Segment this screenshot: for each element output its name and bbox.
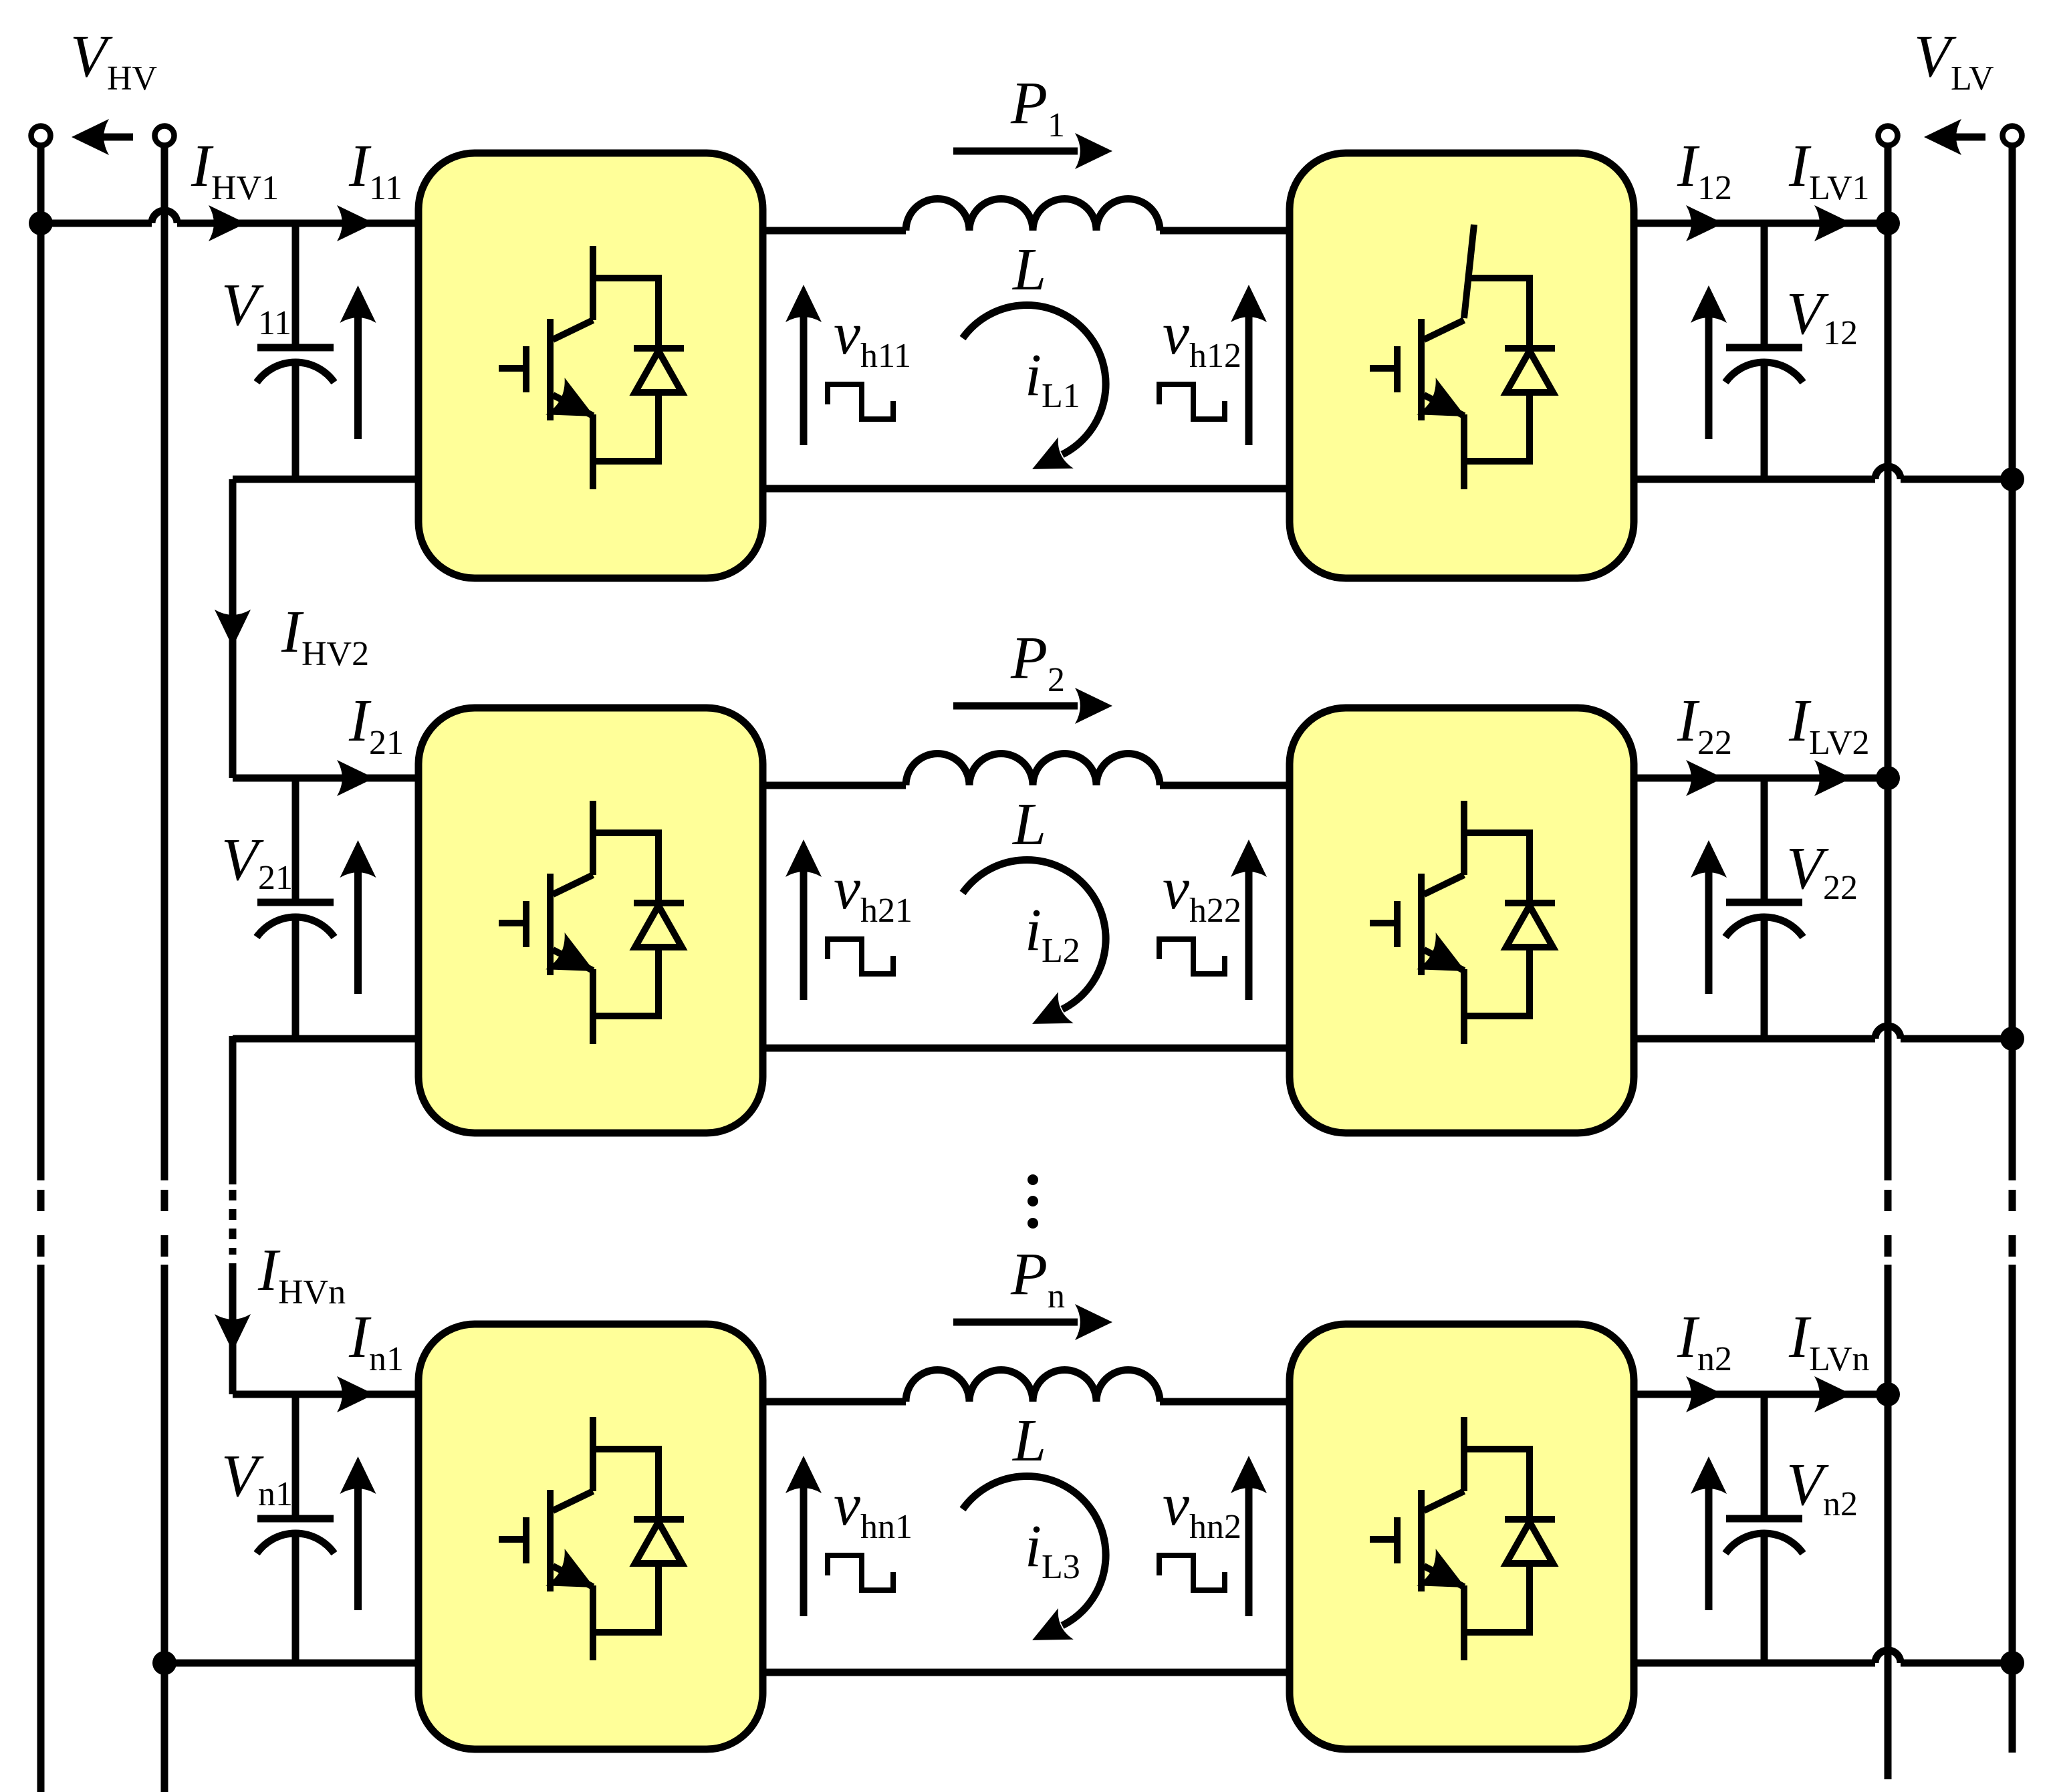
label I_11 [348, 133, 402, 207]
svg-text:L: L [1011, 237, 1046, 303]
label i_L2 [1025, 897, 1080, 970]
arrow I_11 [337, 205, 374, 241]
continuation dots [1028, 1174, 1038, 1229]
label I_HVn [257, 1237, 346, 1311]
label I_LVn [1788, 1304, 1870, 1378]
H-bridge cell 3 LV-side converter box [1290, 1324, 1634, 1749]
label I_HV2 [281, 599, 369, 673]
arrow V_n2 [1691, 1456, 1727, 1610]
terminal LV- [2003, 126, 2022, 146]
terminal LV+ [1879, 126, 1898, 146]
label I_12 [1677, 133, 1732, 207]
wire cell2 HV input [233, 775, 418, 782]
LV bus bar 2 (wire) [2009, 145, 2016, 1753]
inductor L cell 2 [906, 754, 1160, 786]
wire cell3 AC link right [1160, 1398, 1290, 1406]
H-bridge cell 2 HV-side converter box [418, 708, 763, 1133]
capacitor Cn2 (V_n2) [1725, 1394, 1803, 1663]
capacitor C11 (V_11) [257, 223, 334, 479]
arrow V_n1 [340, 1456, 376, 1610]
label L cell 2 [1011, 791, 1046, 858]
arrow I_LV2 [1814, 760, 1852, 796]
label I_HV1 [191, 133, 279, 207]
junction LV bus 2 node cell 3 [2000, 1651, 2024, 1675]
label P_2 [1010, 625, 1065, 699]
H-bridge cell 2 LV-side converter box [1290, 708, 1634, 1133]
junction LV bus node cell 2 [1876, 766, 1900, 790]
arrow P_1 power flow [953, 133, 1112, 169]
arrow P_n power flow [953, 1304, 1112, 1340]
label P_n [1010, 1241, 1065, 1315]
wire I_HV2 feed [229, 479, 237, 778]
junction HV bus 2 return node [152, 1651, 176, 1675]
label L cell 3 [1011, 1408, 1046, 1474]
capacitor C12 (V_12) [1725, 223, 1803, 479]
arrow I_LV1 [1814, 205, 1852, 241]
wire cell1 AC return rail [763, 485, 1290, 493]
wire cell1 HV input (with hopover) [41, 211, 418, 223]
arrow I_LVn [1814, 1376, 1852, 1412]
arrow I_HV2 [215, 610, 251, 647]
wire cell1 LV return rail (with hopover) [1634, 467, 2012, 479]
arrow I_12 [1686, 205, 1723, 241]
wire cell1 AC link left [763, 227, 906, 235]
arrow I_HVn [215, 1314, 251, 1352]
junction LV bus node cell 3 [1876, 1382, 1900, 1406]
label i_L1 [1025, 342, 1080, 415]
label V_12 [1786, 281, 1858, 352]
svg-text:L: L [1011, 1408, 1046, 1474]
label I_n2 [1677, 1304, 1732, 1378]
waveform glyph v_hn1 [828, 1555, 893, 1590]
arrow v_h11 [786, 285, 822, 445]
capacitor C22 (V_22) [1725, 778, 1803, 1039]
inductor L cell 1 [906, 199, 1160, 231]
label I_21 [348, 688, 404, 762]
wire cell3 HV input [233, 1391, 418, 1398]
waveform glyph v_hn2 [1159, 1555, 1225, 1590]
LV terminal node V_LV label [1914, 23, 1994, 98]
terminal HV+ [31, 126, 51, 146]
waveform glyph v_h12 [1159, 384, 1225, 419]
label V_22 [1786, 836, 1858, 907]
arrow v_h21 [786, 840, 822, 1000]
label V_n1 [221, 1443, 293, 1513]
H-bridge cell 3 HV-side converter box [418, 1324, 763, 1749]
arrow I_22 [1686, 760, 1723, 796]
inductor L cell 3 [906, 1370, 1160, 1402]
wire cell1 HV return rail [233, 476, 418, 483]
arrow i_L1 loop current [963, 305, 1106, 485]
label V_n2 [1786, 1452, 1858, 1523]
waveform glyph v_h21 [828, 939, 893, 974]
terminal HV- [155, 126, 174, 146]
label I_22 [1677, 688, 1732, 762]
wire cell3 LV output [1634, 1391, 1888, 1398]
wire cell3 HV return rail [164, 1660, 418, 1667]
arrow V_12 [1691, 285, 1727, 439]
waveform glyph v_h22 [1159, 939, 1225, 974]
wire cell3 LV return rail (with hopover) [1634, 1650, 2012, 1663]
label I_n1 [348, 1304, 404, 1378]
label v_hn2 [1163, 1472, 1241, 1546]
wire cell1 AC link right [1160, 227, 1290, 235]
LV polarity arrow [1924, 119, 1985, 155]
label I_LV2 [1788, 688, 1870, 762]
arrow v_hn2 [1231, 1456, 1267, 1616]
capacitor Cn1 (V_n1) [257, 1394, 334, 1663]
LV bus bar 1 (wire) [1885, 145, 1892, 1779]
wire cell3 AC return rail [763, 1669, 1290, 1676]
svg-text:L: L [1011, 791, 1046, 858]
HV terminal + node V_HV label [70, 23, 157, 98]
arrow V_11 [340, 285, 376, 439]
arrow i_L3 loop current [963, 1477, 1106, 1656]
label v_hn1 [834, 1472, 913, 1546]
label L cell 1 [1011, 237, 1046, 303]
arrow v_hn1 [786, 1456, 822, 1616]
arrow P_2 power flow [953, 688, 1112, 724]
arrow v_h22 [1231, 840, 1267, 1000]
junction LV bus node cell 1 [1876, 211, 1900, 235]
arrow I_HV1 [209, 205, 246, 241]
label P_1 [1010, 70, 1065, 144]
arrow V_21 [340, 840, 376, 994]
label v_h22 [1163, 856, 1241, 930]
junction LV bus 2 node cell 2 [2000, 1027, 2024, 1051]
capacitor C21 (V_21) [257, 778, 334, 1039]
HV bus bar 1 (wire) [37, 145, 45, 1792]
wire cell2 AC link right [1160, 782, 1290, 789]
wire cell2 AC link left [763, 782, 906, 789]
wire cell2 LV return rail (with hopover) [1634, 1026, 2012, 1039]
HV bus bar 2 (wire) [161, 145, 168, 1792]
wire I_HVn feed (with break) [229, 1036, 237, 1394]
arrow I_21 [337, 760, 374, 796]
arrow I_n2 [1686, 1376, 1723, 1412]
label V_11 [221, 272, 291, 342]
wire cell2 AC return rail [763, 1045, 1290, 1052]
wire cell2 HV return rail [233, 1035, 418, 1043]
H-bridge cell 1 HV-side converter box [418, 153, 763, 578]
wire cell1 LV output [1634, 220, 1888, 227]
junction HV bus node [29, 211, 53, 235]
junction LV bus 2 node cell 1 [2000, 467, 2024, 491]
label V_21 [221, 827, 293, 897]
wire cell3 AC link left [763, 1398, 906, 1406]
label v_h11 [834, 301, 911, 375]
label I_LV1 [1788, 133, 1870, 207]
HV polarity arrow [72, 119, 133, 155]
arrow i_L2 loop current [963, 860, 1106, 1040]
arrow V_22 [1691, 840, 1727, 994]
wire cell2 LV output [1634, 775, 1888, 782]
label v_h21 [834, 856, 913, 930]
label v_h12 [1163, 301, 1241, 375]
arrow v_h12 [1231, 285, 1267, 445]
H-bridge cell 1 LV-side converter box [1290, 153, 1634, 578]
label i_L3 [1025, 1513, 1080, 1586]
arrow I_n1 [337, 1376, 374, 1412]
waveform glyph v_h11 [828, 384, 893, 419]
